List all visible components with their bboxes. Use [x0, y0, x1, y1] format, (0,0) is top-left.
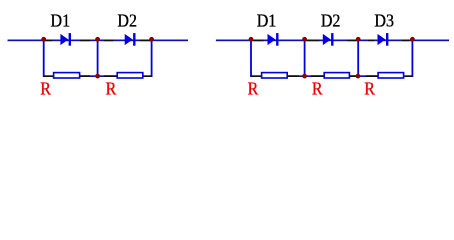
- node: left circuit top junction 3: [149, 37, 154, 42]
- label D2 (left circuit): [117, 11, 137, 31]
- wire: left circuit top rail: [8, 40, 189, 42]
- node: right circuit top junction 2: [302, 37, 307, 42]
- wire: right bottom rail after RC: [404, 75, 412, 77]
- wire: left bottom rail segment to R1: [44, 75, 54, 77]
- resistor R (right circuit, cell 3): [378, 73, 404, 78]
- svg-text:R: R: [106, 79, 117, 99]
- diode D3 (right circuit): [378, 33, 389, 46]
- label D3 (right circuit): [374, 11, 394, 31]
- svg-text:D2: D2: [117, 11, 137, 31]
- svg-text:D2: D2: [321, 11, 341, 31]
- diode D2 (left circuit): [125, 33, 136, 46]
- wire: left top rail black segment 6: [104, 40, 114, 42]
- wire: right bottom rail black part after RA: [288, 75, 299, 77]
- wire: right top rail black segment 1: [253, 40, 264, 42]
- svg-text:R: R: [40, 79, 51, 99]
- resistor R (left circuit, cell 1): [54, 73, 80, 78]
- wire: left circuit vertical at node 2: [97, 40, 99, 78]
- wire: right bottom rail black part after RB: [350, 75, 356, 77]
- label R (right circuit, cell 2): [312, 79, 323, 99]
- node: right circuit top junction 1: [249, 37, 254, 42]
- wire: right circuit vertical at node 2: [304, 40, 306, 78]
- wire: left top rail black segment 5: [80, 40, 90, 42]
- wire: right top rail black segment 5: [402, 40, 410, 42]
- node: left circuit top junction 1: [41, 37, 46, 42]
- resistor R (left circuit, cell 2): [117, 73, 143, 78]
- wire: left circuit vertical at node 3: [151, 40, 153, 78]
- wire: right top rail black segment 3: [347, 40, 357, 42]
- wire: right circuit top rail: [216, 40, 449, 42]
- wire: right bottom rail between RB and RC: [350, 75, 378, 77]
- wire: right bottom rail segment to RA: [251, 75, 262, 77]
- svg-text:R: R: [248, 79, 259, 99]
- label R (right circuit, cell 1): [248, 79, 259, 99]
- svg-text:D3: D3: [374, 11, 394, 31]
- node: right circuit bottom junction 1: [302, 74, 307, 79]
- wire: left bottom rail black part before R2: [104, 75, 116, 77]
- wire: right bottom rail black part before RB: [311, 75, 323, 77]
- svg-text:R: R: [312, 79, 323, 99]
- node: right circuit top junction 4: [410, 37, 415, 42]
- label R (left circuit, cell 2): [106, 79, 117, 99]
- wire: right top rail black segment 4: [368, 40, 374, 42]
- node: left circuit top junction 2: [95, 37, 100, 42]
- svg-text:D1: D1: [51, 11, 71, 31]
- node: right circuit top junction 3: [356, 37, 361, 42]
- diode D1 (right circuit): [268, 33, 279, 46]
- wire: left top rail black segment 4: [45, 40, 53, 42]
- wire: right top rail black segment 2: [306, 40, 319, 42]
- label D2 (right circuit): [321, 11, 341, 31]
- diode D1 (left circuit): [60, 33, 71, 46]
- wire: left circuit vertical at node 1: [43, 40, 45, 78]
- label D1 (left circuit): [51, 11, 71, 31]
- resistor R (right circuit, cell 1): [262, 73, 288, 78]
- wire: right bottom rail between RA and RB: [287, 75, 324, 77]
- label R (right circuit, cell 3): [364, 79, 375, 99]
- node: right circuit bottom junction 2: [356, 74, 361, 79]
- label R (left circuit, cell 1): [40, 79, 51, 99]
- wire: right circuit vertical at node 4: [412, 40, 414, 78]
- node: left circuit bottom junction: [95, 74, 100, 79]
- svg-text:D1: D1: [257, 11, 277, 31]
- diode D2 (right circuit): [323, 33, 334, 46]
- svg-text:R: R: [364, 79, 375, 99]
- wire: left bottom rail black part after R1: [80, 75, 90, 77]
- wire: left bottom rail between R1 and R2: [80, 75, 117, 77]
- wire: left bottom rail after R2: [143, 75, 152, 77]
- resistor R (right circuit, cell 2): [324, 73, 349, 78]
- wire: right bottom rail black part before RC: [366, 75, 377, 77]
- wire: left top rail black segment 7: [140, 40, 151, 42]
- wire: right circuit vertical at node 1: [250, 40, 252, 78]
- wire: right circuit vertical at node 3: [357, 40, 359, 78]
- label D1 (right circuit): [257, 11, 277, 31]
